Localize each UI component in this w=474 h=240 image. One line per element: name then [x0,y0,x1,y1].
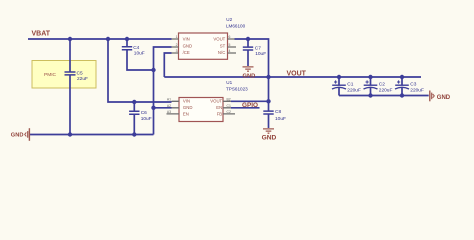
svg-text:GND: GND [437,95,451,101]
svg-text:LM66100: LM66100 [226,24,246,29]
svg-text:10uF: 10uF [275,116,286,122]
wire U1 VOUT to output node [231,100,269,102]
U1 pin numbers [167,97,231,114]
junction VOUT rail/output drop [266,75,270,79]
junction C4/GND spine [151,68,155,72]
junction VOUT wire/C7 [246,37,250,41]
wire /CE of U2 to VOUT net [164,53,171,77]
junction VOUT rail/C3 [400,75,404,79]
svg-text:VOUT: VOUT [213,36,225,41]
capacitor C1 220uF polarized [332,78,361,96]
svg-text:6: 6 [229,35,231,39]
svg-text:GND: GND [262,134,277,141]
power port GND left [11,128,30,141]
svg-text:220uF: 220uF [410,87,424,93]
ground GND under C7 [242,67,255,79]
svg-text:C7: C7 [255,46,261,52]
IC U2 LM66100 body [179,33,228,59]
svg-text:VBAT: VBAT [32,31,51,38]
svg-text:GND: GND [183,105,193,110]
svg-text:U2: U2 [226,17,232,22]
svg-text:PMIC: PMIC [44,72,57,78]
wire C8 to ground symbol [268,115,270,129]
wire VBAT rail [28,38,172,40]
wire C5 to GND rail [69,75,71,134]
wire VOUT rail [164,76,421,78]
junction U1 VOUT/C8 [266,99,270,103]
svg-text:A3: A3 [167,110,171,114]
svg-text:3: 3 [176,49,178,53]
svg-text:22uF: 22uF [77,76,88,82]
svg-text:ST: ST [220,43,226,48]
junction caps bottom rail/C2 [368,93,372,97]
wire U2 GND pin down the GND spine x153.5 [154,47,172,135]
U2 pin numbers [176,35,231,53]
svg-text:VIN: VIN [183,99,190,104]
wire GND rail bottom [30,134,154,136]
svg-text:C1: C1 [227,104,231,108]
capacitor C5 22uF [65,71,89,83]
svg-text:C4: C4 [133,45,139,51]
svg-text:N/C: N/C [218,50,225,55]
junction VBAT/C5 [68,37,72,41]
svg-text:C3: C3 [410,82,416,88]
capacitor C3 220uF polarized [395,78,424,96]
wire VBAT to C5/PMIC [69,39,71,72]
svg-text:A2: A2 [167,104,171,108]
svg-text:EN: EN [216,105,222,110]
svg-text:C5: C5 [77,71,83,77]
junction VOUT rail/C1 [337,75,341,79]
svg-text:VIN: VIN [183,36,190,41]
U2 pin stubs [172,39,237,53]
svg-text:GPIO: GPIO [242,102,258,109]
svg-text:U1: U1 [226,80,232,85]
power port GND right [430,91,451,102]
junction VOUT rail/C2 [368,75,372,79]
svg-text:GND: GND [242,73,255,79]
wire VBAT to VIN of U1 (drop at x108) [108,39,172,102]
capacitor C7 10uF [243,39,266,57]
wire output caps bottom rail [339,95,429,97]
svg-text:VOUT: VOUT [210,99,222,104]
junction GND rail/C6 [132,132,136,136]
svg-text:GND: GND [183,43,193,48]
svg-text:5: 5 [229,43,231,47]
U1 pin stubs [167,101,236,114]
svg-text:C6: C6 [141,110,147,116]
svg-text:1: 1 [176,35,178,39]
svg-text:4: 4 [229,49,231,53]
PMIC block [32,61,96,89]
svg-text:C1: C1 [347,82,353,88]
svg-text:C8: C8 [275,109,281,115]
capacitor C6 10uF [129,102,152,122]
wire C6 to GND rail [133,115,135,135]
svg-text:220uF: 220uF [347,87,361,93]
svg-text:C2: C2 [379,82,385,88]
svg-text:VOUT: VOUT [287,70,307,77]
svg-text:A1: A1 [167,97,171,101]
svg-text:GND: GND [11,133,24,139]
svg-text:C2: C2 [227,110,231,114]
svg-text:/CE: /CE [183,50,190,55]
svg-text:FB: FB [217,112,223,117]
junction GND rail/C5 [68,132,72,136]
junction caps bottom rail/C3 [400,93,404,97]
capacitor C4 10uF [122,39,145,56]
wire U2 VOUT to output node [235,39,269,101]
wire C7 to ground symbol [247,51,249,67]
wire C4 bottom to GND node [127,50,154,70]
junction VBAT/x108 [106,37,110,41]
svg-text:220uF: 220uF [379,87,393,93]
ground GND under C8 [262,129,277,142]
svg-text:TPS61023: TPS61023 [226,86,248,91]
svg-text:10uF: 10uF [134,50,145,56]
capacitor C8 10uF [263,101,286,122]
svg-text:EN: EN [183,112,189,117]
IC U1 TPS61023 body [179,98,223,122]
wire U1 EN GPIO stub [231,107,260,109]
junction GND spine/U1 GND [151,106,155,110]
capacitor C2 220uF polarized [364,78,393,96]
junction VIN wire/C6 [132,100,136,104]
wire GND spine to U1 GND pin [154,107,172,109]
svg-text:B2: B2 [227,97,231,101]
svg-text:10uF: 10uF [141,116,152,122]
svg-text:2: 2 [176,43,178,47]
svg-text:10uF: 10uF [255,51,266,57]
junction VBAT/C4 [125,37,129,41]
